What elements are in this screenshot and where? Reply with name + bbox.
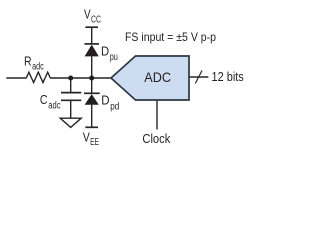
wire node to capacitor xyxy=(70,78,72,92)
svg-text:ADC: ADC xyxy=(144,70,171,85)
diode D_pu triangle xyxy=(85,45,99,57)
diode D_pu cathode bar xyxy=(84,43,99,45)
VEE supply bar xyxy=(85,126,98,128)
svg-text:pd: pd xyxy=(110,101,119,112)
svg-text:D: D xyxy=(101,94,109,108)
svg-text:FS input = ±5 V p-p: FS input = ±5 V p-p xyxy=(125,30,216,44)
bus slash 12 bits xyxy=(195,71,202,84)
svg-text:12 bits: 12 bits xyxy=(212,69,244,84)
svg-text:D: D xyxy=(101,45,109,59)
diode D_pd cathode bar xyxy=(84,92,100,94)
diode D_pd triangle xyxy=(85,94,99,105)
svg-text:R: R xyxy=(24,54,32,68)
svg-text:pu: pu xyxy=(110,52,118,63)
svg-text:C: C xyxy=(40,93,48,107)
op ADC block xyxy=(111,56,189,100)
resistor R_adc zigzag xyxy=(26,72,50,82)
wire node to D_pd xyxy=(91,78,93,93)
capacitor C_adc top plate xyxy=(61,92,81,94)
wire D_pd to VEE xyxy=(91,105,93,128)
svg-text:adc: adc xyxy=(48,100,60,111)
svg-text:Clock: Clock xyxy=(142,131,170,146)
wire ADC output xyxy=(189,76,208,78)
svg-text:CC: CC xyxy=(91,14,101,25)
ground symbol xyxy=(60,118,81,127)
wire D_pu to node xyxy=(91,56,93,78)
wire VCC vertical xyxy=(91,27,93,44)
capacitor C_adc bottom plate xyxy=(61,99,81,101)
wire input lead xyxy=(6,77,26,79)
node junction dot right xyxy=(89,75,94,80)
VCC supply bar xyxy=(85,26,98,28)
node junction dot left xyxy=(68,75,73,80)
svg-text:EE: EE xyxy=(90,137,99,148)
wire resistor to ADC xyxy=(50,77,111,79)
wire capacitor to ground xyxy=(70,101,72,118)
wire clock xyxy=(156,100,158,130)
svg-text:adc: adc xyxy=(32,61,44,72)
